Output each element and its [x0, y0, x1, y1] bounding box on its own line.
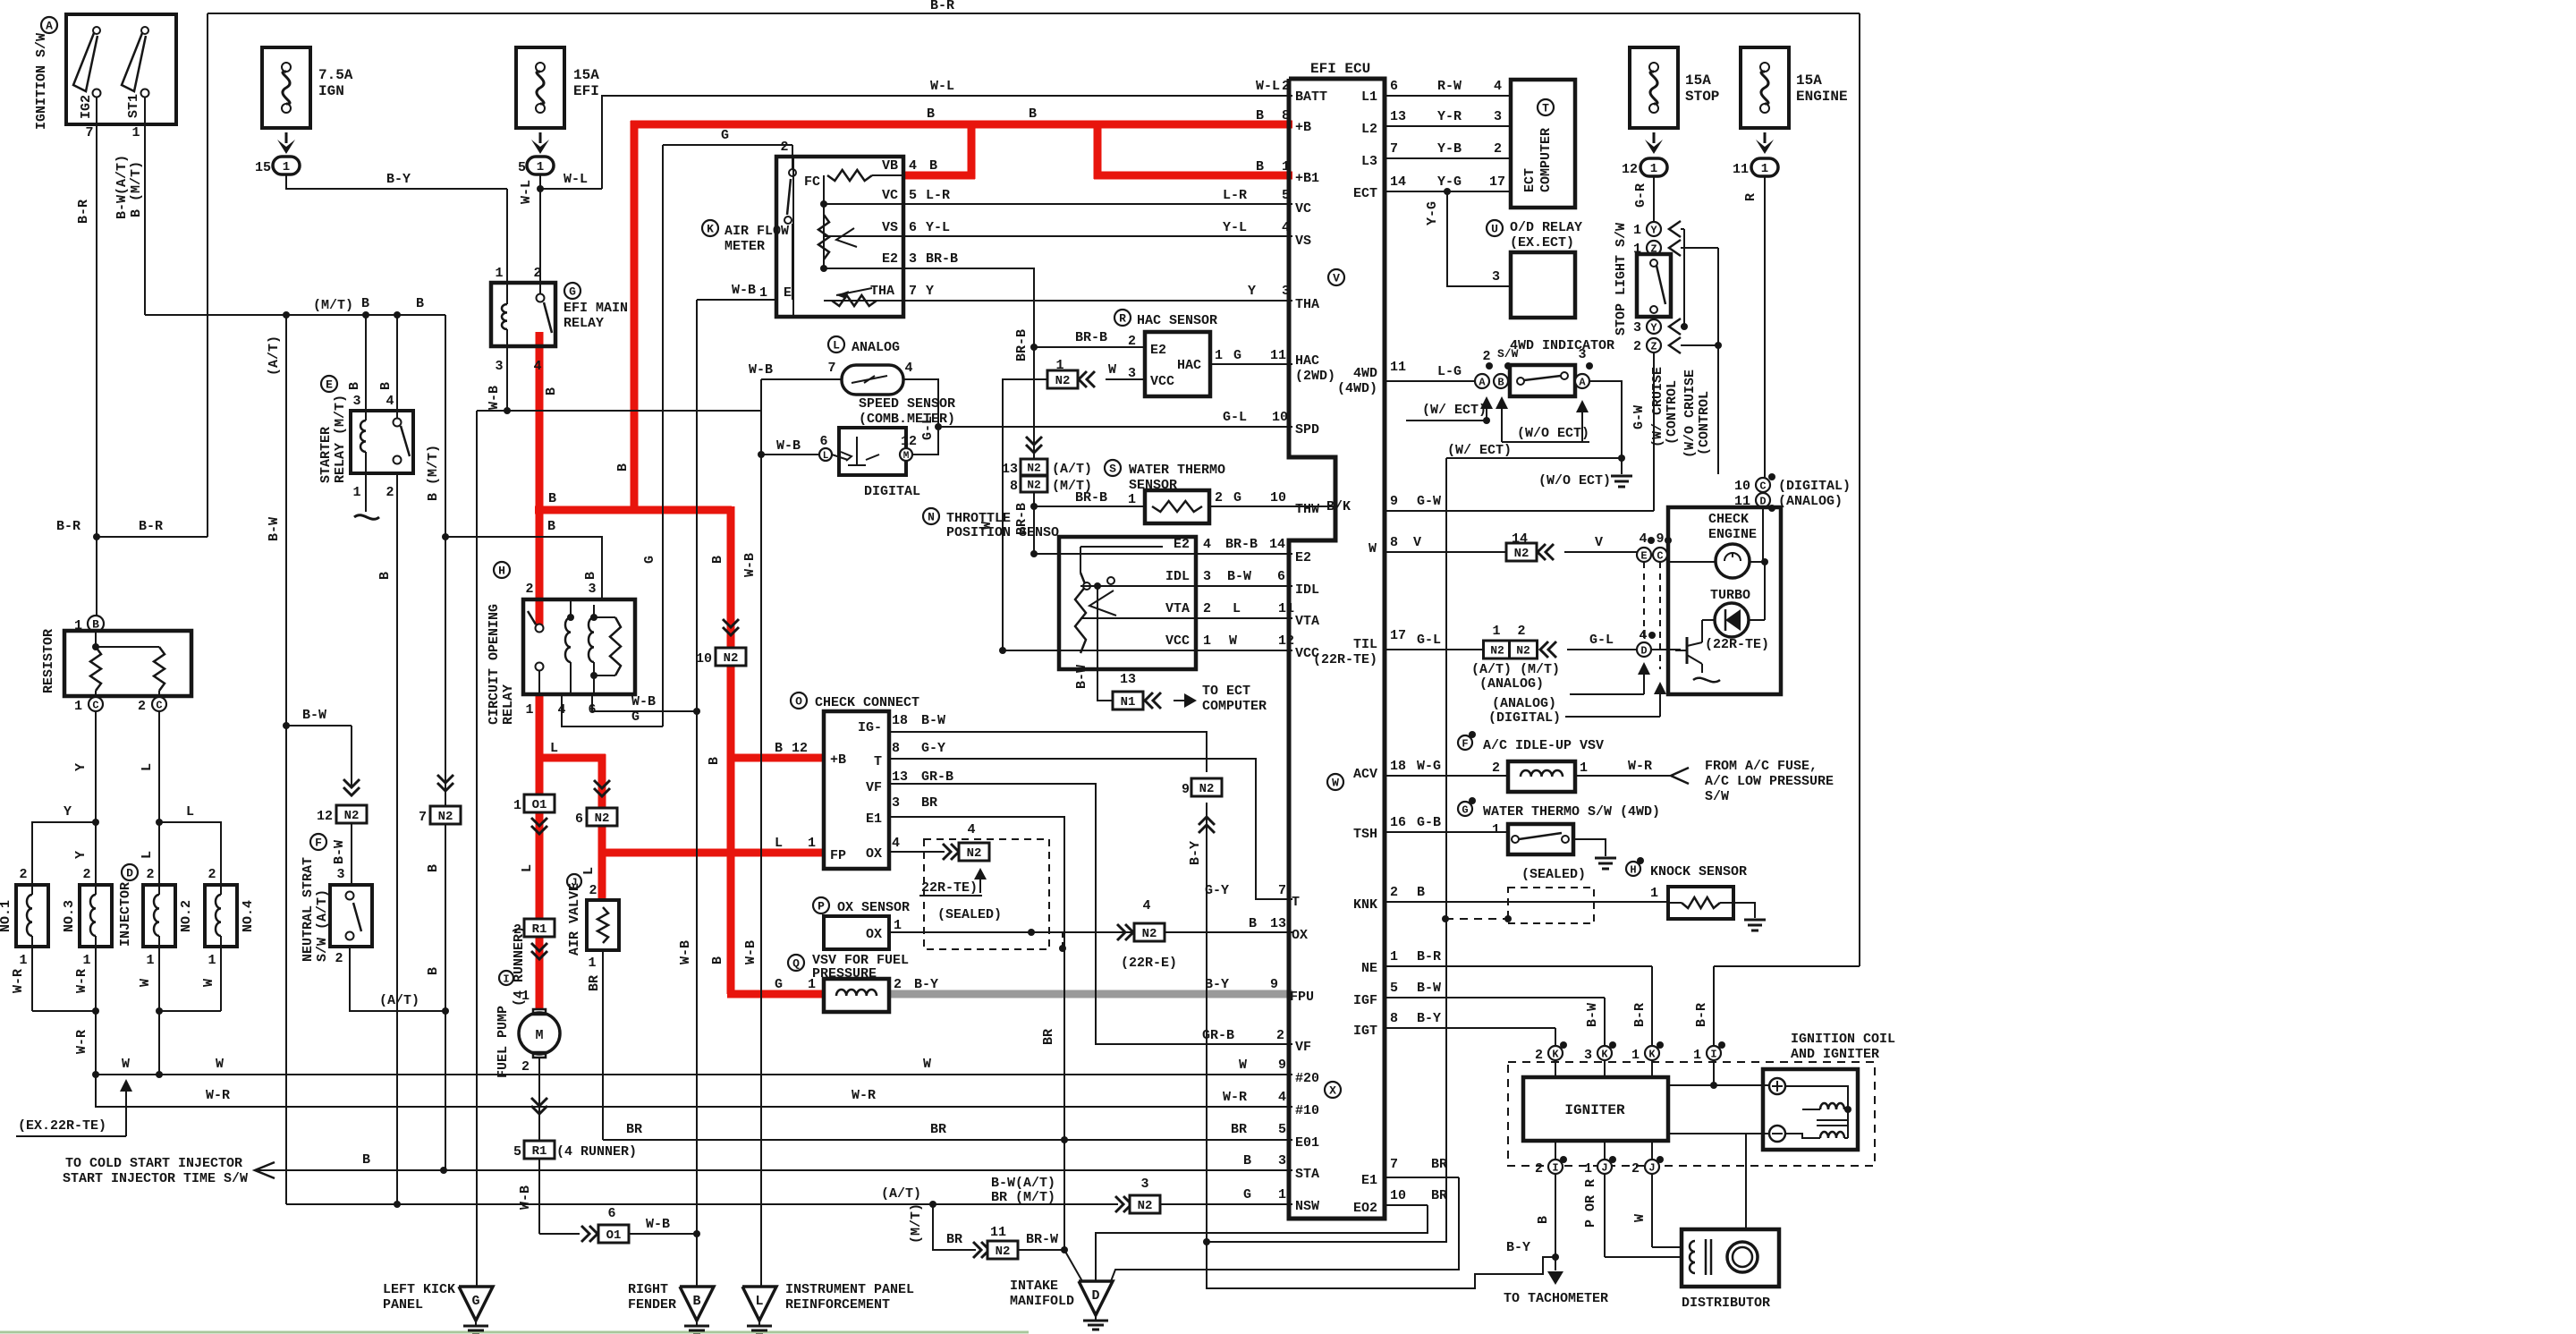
svg-text:9: 9	[1270, 977, 1278, 992]
svg-text:N: N	[928, 511, 935, 524]
svg-text:Y: Y	[73, 763, 89, 771]
svg-text:O: O	[795, 695, 802, 709]
svg-text:D: D	[126, 867, 133, 880]
svg-text:1: 1	[1693, 1048, 1701, 1063]
svg-text:B-W: B-W	[332, 840, 347, 864]
svg-text:9: 9	[1390, 494, 1398, 509]
svg-text:G-Y: G-Y	[921, 741, 945, 756]
svg-text:N2: N2	[1199, 782, 1215, 796]
svg-text:FROM A/C FUSE,: FROM A/C FUSE,	[1705, 759, 1818, 774]
svg-text:12: 12	[317, 809, 333, 824]
svg-text:BR: BR	[1431, 1157, 1447, 1172]
svg-text:RELAY (M/T): RELAY (M/T)	[333, 395, 348, 483]
svg-text:(CONTROL: (CONTROL	[1665, 380, 1680, 445]
svg-text:(2WD): (2WD)	[1295, 369, 1335, 384]
svg-text:BR: BR	[946, 1232, 962, 1247]
svg-text:1: 1	[495, 266, 503, 281]
svg-text:14: 14	[1512, 531, 1528, 547]
svg-text:PANEL: PANEL	[383, 1297, 423, 1313]
svg-text:2: 2	[1535, 1048, 1543, 1063]
svg-text:2: 2	[1492, 760, 1500, 776]
svg-text:K: K	[1648, 1048, 1656, 1060]
svg-text:(A/T): (A/T)	[1052, 462, 1092, 477]
svg-text:3: 3	[909, 251, 917, 267]
svg-text:OX SENSOR: OX SENSOR	[837, 900, 910, 915]
svg-text:6: 6	[909, 220, 917, 235]
svg-text:7: 7	[1390, 1157, 1398, 1172]
svg-text:ANALOG: ANALOG	[852, 340, 900, 355]
svg-text:B: B	[416, 296, 424, 311]
svg-text:+B1: +B1	[1295, 171, 1319, 186]
svg-text:11: 11	[1390, 360, 1406, 375]
svg-text:W: W	[1229, 633, 1237, 649]
svg-text:RELAY: RELAY	[501, 684, 516, 725]
svg-text:1: 1	[208, 953, 216, 968]
svg-text:B-Y: B-Y	[1205, 977, 1229, 992]
svg-text:R: R	[1119, 312, 1126, 326]
svg-text:ENGINE: ENGINE	[1796, 89, 1848, 105]
svg-text:POSITION SENSO: POSITION SENSO	[946, 525, 1059, 540]
svg-text:OX: OX	[866, 846, 882, 862]
svg-text:VTA: VTA	[1295, 614, 1319, 629]
svg-text:A/C LOW PRESSURE: A/C LOW PRESSURE	[1705, 774, 1834, 789]
svg-text:SPEED SENSOR: SPEED SENSOR	[859, 396, 955, 412]
svg-text:B: B	[710, 956, 725, 964]
svg-text:S/W: S/W	[1497, 347, 1519, 361]
svg-text:3: 3	[336, 867, 344, 882]
svg-text:(ANALOG): (ANALOG)	[1492, 696, 1556, 711]
svg-text:BR: BR	[626, 1122, 642, 1137]
svg-text:G-B: G-B	[1417, 815, 1441, 830]
svg-text:B: B	[362, 1152, 370, 1168]
svg-text:+B: +B	[830, 752, 846, 768]
svg-text:2: 2	[521, 1059, 530, 1075]
svg-text:2: 2	[335, 951, 343, 966]
svg-text:BR-B: BR-B	[1225, 537, 1258, 552]
svg-text:F: F	[315, 837, 322, 850]
svg-text:2: 2	[1517, 624, 1525, 639]
svg-text:12: 12	[1622, 162, 1638, 177]
svg-text:3: 3	[1278, 1153, 1286, 1168]
svg-text:HAC: HAC	[1177, 358, 1201, 373]
svg-text:B: B	[710, 556, 725, 564]
svg-text:B: B	[547, 519, 555, 534]
svg-text:10: 10	[1272, 410, 1288, 425]
svg-text:11: 11	[990, 1225, 1006, 1240]
svg-text:N2: N2	[1055, 374, 1071, 388]
svg-text:W-G: W-G	[1417, 759, 1441, 774]
svg-text:BR (M/T): BR (M/T)	[991, 1190, 1055, 1205]
svg-text:B-W: B-W	[1585, 1003, 1600, 1027]
svg-text:1: 1	[808, 836, 816, 851]
svg-text:IDL: IDL	[1165, 569, 1190, 584]
svg-text:NO.2: NO.2	[179, 900, 194, 932]
svg-text:(4 RUNNER): (4 RUNNER)	[556, 1144, 637, 1160]
svg-text:1: 1	[1633, 223, 1641, 238]
svg-text:FP: FP	[830, 848, 846, 863]
svg-text:K: K	[707, 223, 714, 236]
svg-text:12: 12	[792, 741, 808, 756]
svg-text:2: 2	[533, 266, 541, 281]
svg-text:Y: Y	[73, 851, 89, 859]
svg-text:1: 1	[1278, 1187, 1286, 1202]
svg-text:FPU: FPU	[1290, 990, 1314, 1005]
svg-text:B: B	[1417, 885, 1425, 900]
svg-text:(EX.22R-TE): (EX.22R-TE)	[18, 1118, 106, 1134]
svg-text:K: K	[1601, 1048, 1608, 1060]
svg-text:E1: E1	[866, 811, 882, 827]
svg-text:L-G: L-G	[1437, 364, 1462, 379]
svg-text:VF: VF	[866, 780, 882, 795]
svg-text:BR: BR	[1041, 1029, 1056, 1045]
svg-text:N2: N2	[996, 1245, 1011, 1259]
svg-text:E: E	[784, 285, 792, 301]
svg-text:14: 14	[1269, 537, 1285, 552]
svg-text:1: 1	[82, 953, 90, 968]
svg-text:1: 1	[1203, 633, 1211, 649]
svg-text:STOP: STOP	[1685, 89, 1719, 105]
svg-text:N2: N2	[1490, 644, 1504, 658]
svg-text:RELAY: RELAY	[563, 316, 604, 331]
svg-text:3: 3	[1584, 1048, 1592, 1063]
svg-text:X: X	[1329, 1084, 1336, 1098]
svg-text:L: L	[140, 763, 155, 771]
svg-text:3: 3	[892, 795, 900, 811]
svg-text:WATER THERMO: WATER THERMO	[1129, 463, 1225, 478]
svg-text:B-Y: B-Y	[386, 172, 411, 187]
svg-text:N2: N2	[1138, 1199, 1153, 1213]
svg-text:G-L: G-L	[1223, 410, 1247, 425]
svg-text:B: B	[929, 158, 937, 174]
svg-text:W-R: W-R	[1223, 1090, 1247, 1105]
svg-text:TSH: TSH	[1353, 827, 1377, 842]
svg-text:N2: N2	[438, 810, 453, 824]
svg-text:ST1: ST1	[126, 94, 141, 118]
svg-text:(EX.ECT): (EX.ECT)	[1510, 235, 1574, 251]
svg-text:G-L: G-L	[920, 416, 936, 440]
svg-text:TIL: TIL	[1353, 637, 1377, 652]
svg-text:THA: THA	[1295, 297, 1319, 312]
svg-text:Y-L: Y-L	[1223, 220, 1247, 235]
svg-text:FENDER: FENDER	[628, 1297, 676, 1313]
svg-text:8: 8	[1282, 108, 1290, 123]
svg-text:L-R: L-R	[1223, 188, 1247, 203]
svg-text:2: 2	[82, 867, 90, 882]
svg-text:BR: BR	[587, 975, 602, 991]
svg-text:AND IGNITER: AND IGNITER	[1791, 1047, 1879, 1062]
svg-text:BR: BR	[1431, 1188, 1447, 1203]
svg-text:#20: #20	[1295, 1071, 1319, 1086]
svg-text:G: G	[1233, 490, 1241, 506]
svg-text:W: W	[201, 979, 216, 987]
svg-text:DISTRIBUTOR: DISTRIBUTOR	[1682, 1296, 1770, 1311]
svg-text:13: 13	[1002, 462, 1018, 477]
svg-text:L: L	[140, 851, 155, 859]
svg-text:B-Y: B-Y	[914, 977, 938, 992]
svg-text:S/W: S/W	[1705, 789, 1729, 804]
svg-text:(A/T): (A/T)	[881, 1186, 921, 1202]
svg-text:W-L: W-L	[930, 79, 954, 94]
svg-text:NEUTRAL STRAT: NEUTRAL STRAT	[301, 857, 316, 962]
svg-text:2: 2	[1282, 79, 1290, 94]
svg-text:CHECK CONNECT: CHECK CONNECT	[815, 695, 919, 710]
svg-text:(A/T): (A/T)	[267, 336, 282, 376]
svg-text:KNOCK SENSOR: KNOCK SENSOR	[1650, 864, 1747, 879]
svg-text:IGNITION COIL: IGNITION COIL	[1791, 1032, 1895, 1047]
svg-text:N2: N2	[1514, 547, 1529, 561]
svg-text:W-L: W-L	[563, 172, 588, 187]
svg-text:4WD INDICATOR: 4WD INDICATOR	[1510, 338, 1614, 353]
svg-text:B-W(A/T): B-W(A/T)	[114, 155, 130, 219]
svg-text:10: 10	[1390, 1188, 1406, 1203]
svg-text:H: H	[498, 565, 505, 578]
svg-text:(W/O ECT): (W/O ECT)	[1538, 473, 1611, 489]
svg-text:EO2: EO2	[1353, 1201, 1377, 1216]
svg-text:G-W: G-W	[1417, 494, 1441, 509]
svg-text:A: A	[1479, 376, 1486, 388]
svg-text:COMPUTER: COMPUTER	[1202, 699, 1267, 714]
svg-text:V: V	[1413, 535, 1421, 550]
svg-text:N2: N2	[1027, 462, 1041, 475]
svg-text:W-B: W-B	[487, 386, 502, 410]
svg-text:NE: NE	[1361, 961, 1377, 976]
svg-text:B: B	[707, 757, 722, 765]
svg-text:13: 13	[1390, 109, 1406, 124]
svg-text:6: 6	[575, 811, 583, 827]
svg-text:ACV: ACV	[1353, 767, 1377, 782]
svg-text:OX: OX	[1292, 928, 1308, 943]
svg-text:3: 3	[1633, 320, 1641, 336]
svg-text:G: G	[1243, 1187, 1251, 1202]
svg-text:STARTER: STARTER	[318, 427, 334, 483]
svg-text:VC: VC	[1295, 201, 1311, 217]
svg-text:B-W: B-W	[302, 708, 326, 723]
svg-text:O/D RELAY: O/D RELAY	[1510, 220, 1582, 235]
svg-text:G-L: G-L	[1417, 633, 1441, 648]
svg-text:W-B: W-B	[678, 940, 693, 964]
svg-text:FC: FC	[804, 174, 820, 190]
svg-text:R1: R1	[532, 1144, 547, 1159]
svg-text:17: 17	[1489, 174, 1505, 190]
svg-text:L: L	[186, 804, 194, 820]
svg-text:B-W: B-W	[921, 713, 945, 728]
svg-text:SPD: SPD	[1295, 422, 1319, 438]
svg-text:BR-B: BR-B	[1014, 329, 1030, 361]
svg-text:J: J	[1601, 1161, 1607, 1174]
svg-text:4: 4	[1278, 1090, 1286, 1105]
svg-text:1: 1	[1128, 492, 1136, 507]
svg-text:Y: Y	[1248, 284, 1256, 299]
svg-text:1: 1	[525, 702, 533, 718]
svg-text:#10: #10	[1295, 1103, 1319, 1118]
svg-text:R-W: R-W	[1437, 79, 1462, 94]
svg-text:(DIGITAL): (DIGITAL)	[1488, 710, 1561, 726]
svg-text:REINFORCEMENT: REINFORCEMENT	[785, 1297, 890, 1313]
svg-text:16: 16	[1390, 815, 1406, 830]
svg-text:Y-G: Y-G	[1437, 174, 1462, 190]
svg-text:L1: L1	[1361, 89, 1377, 105]
svg-text:5: 5	[1278, 1122, 1286, 1137]
svg-text:L-R: L-R	[926, 188, 950, 203]
svg-text:2: 2	[19, 867, 27, 882]
svg-text:IG2: IG2	[79, 95, 94, 119]
svg-text:(22R-TE): (22R-TE)	[1313, 652, 1377, 667]
svg-text:V: V	[1333, 272, 1340, 285]
svg-text:2: 2	[146, 867, 154, 882]
svg-text:BR-B: BR-B	[1075, 490, 1107, 506]
svg-text:(W/O CRUISE: (W/O CRUISE	[1682, 370, 1698, 458]
svg-text:A: A	[1579, 376, 1586, 388]
svg-text:C: C	[92, 699, 98, 711]
svg-text:Y-L: Y-L	[926, 220, 950, 235]
svg-text:(DIGITAL): (DIGITAL)	[1778, 479, 1851, 494]
svg-text:B: B	[347, 382, 362, 390]
svg-text:4: 4	[1203, 537, 1211, 552]
svg-text:B-R: B-R	[1694, 1003, 1709, 1027]
svg-text:Y: Y	[1650, 321, 1657, 334]
svg-text:2: 2	[1494, 141, 1502, 157]
svg-text:RESISTOR: RESISTOR	[41, 629, 56, 693]
svg-text:6: 6	[1277, 569, 1285, 584]
svg-text:NO.3: NO.3	[62, 900, 77, 932]
svg-text:W-R: W-R	[74, 969, 89, 993]
svg-text:IGNITER: IGNITER	[1564, 1102, 1625, 1118]
svg-text:3: 3	[588, 582, 596, 597]
svg-text:VF: VF	[1295, 1040, 1311, 1055]
svg-text:IGN: IGN	[318, 83, 344, 99]
svg-text:EFI: EFI	[573, 83, 599, 99]
svg-text:(M/T): (M/T)	[909, 1203, 924, 1244]
svg-text:17: 17	[1390, 628, 1406, 643]
svg-text:W: W	[1108, 362, 1116, 378]
svg-text:B: B	[1256, 159, 1264, 174]
svg-text:M: M	[535, 1028, 543, 1043]
svg-text:Z: Z	[1650, 340, 1657, 353]
svg-text:W-B: W-B	[742, 553, 758, 577]
svg-text:9: 9	[1278, 1058, 1286, 1073]
svg-text:INJECTOR: INJECTOR	[118, 882, 133, 947]
svg-text:L: L	[833, 339, 840, 353]
svg-text:L: L	[1233, 601, 1241, 616]
svg-text:L: L	[755, 1294, 763, 1309]
svg-text:G: G	[569, 285, 576, 299]
svg-text:1: 1	[1584, 1161, 1592, 1177]
svg-text:G: G	[1233, 348, 1241, 363]
svg-text:1: 1	[74, 699, 82, 714]
svg-text:I: I	[503, 973, 509, 985]
svg-text:W: W	[923, 1057, 931, 1072]
svg-text:B: B	[615, 463, 631, 472]
svg-text:2: 2	[525, 582, 533, 597]
svg-text:10: 10	[1734, 479, 1750, 494]
svg-text:1: 1	[513, 798, 521, 813]
svg-text:BATT: BATT	[1295, 89, 1327, 105]
svg-text:CIRCUIT OPENING: CIRCUIT OPENING	[487, 604, 502, 725]
svg-text:WATER THERMO S/W (4WD): WATER THERMO S/W (4WD)	[1483, 804, 1660, 820]
svg-text:3: 3	[1128, 366, 1136, 381]
svg-text:4: 4	[904, 361, 912, 376]
svg-text:B-R: B-R	[1632, 1003, 1648, 1027]
svg-text:B (M/T): B (M/T)	[426, 445, 441, 501]
svg-text:7: 7	[85, 125, 93, 140]
svg-text:W: W	[1632, 1214, 1648, 1222]
svg-text:2: 2	[1203, 601, 1211, 616]
svg-text:B-W: B-W	[1227, 569, 1251, 584]
svg-text:10: 10	[696, 651, 712, 667]
svg-text:N2: N2	[724, 651, 739, 666]
svg-text:3: 3	[1203, 569, 1211, 584]
svg-text:2: 2	[1535, 1161, 1543, 1177]
svg-text:G-L: G-L	[1589, 633, 1614, 648]
svg-text:N2: N2	[595, 811, 610, 826]
svg-text:D: D	[1091, 1288, 1099, 1304]
svg-text:2: 2	[1128, 334, 1136, 349]
svg-text:3: 3	[1492, 269, 1500, 285]
svg-text:5: 5	[1390, 981, 1398, 996]
svg-text:W-B: W-B	[732, 283, 756, 298]
svg-text:4: 4	[533, 359, 541, 374]
svg-text:W-R: W-R	[852, 1088, 876, 1103]
svg-text:R1: R1	[532, 922, 547, 937]
svg-text:VB: VB	[882, 158, 898, 174]
svg-text:COMPUTER: COMPUTER	[1538, 128, 1554, 192]
svg-text:N1: N1	[1121, 695, 1136, 709]
svg-text:O1: O1	[606, 1228, 622, 1243]
svg-text:G-W: G-W	[1631, 405, 1647, 429]
svg-text:NO.1: NO.1	[0, 900, 13, 932]
svg-text:FUEL PUMP: FUEL PUMP	[496, 1006, 511, 1078]
svg-text:13: 13	[1270, 916, 1286, 931]
svg-text:INSTRUMENT PANEL: INSTRUMENT PANEL	[785, 1282, 914, 1297]
svg-text:9: 9	[1182, 782, 1190, 797]
svg-text:B: B	[1029, 106, 1037, 122]
svg-text:1: 1	[1055, 358, 1063, 373]
svg-text:1: 1	[1492, 624, 1500, 639]
svg-text:L: L	[550, 741, 558, 756]
svg-text:(COMB.METER): (COMB.METER)	[859, 412, 955, 427]
svg-text:B-W: B-W	[1417, 981, 1441, 996]
svg-text:G: G	[721, 128, 729, 143]
svg-text:C: C	[1657, 549, 1663, 562]
svg-text:VCC: VCC	[1165, 633, 1190, 649]
svg-text:G-R: G-R	[1633, 183, 1648, 208]
svg-text:1: 1	[894, 918, 902, 933]
svg-text:VS: VS	[1295, 234, 1311, 249]
svg-text:W-R: W-R	[1628, 759, 1652, 774]
svg-text:1: 1	[1492, 822, 1500, 837]
svg-text:INTAKE: INTAKE	[1010, 1279, 1058, 1294]
svg-text:Y: Y	[64, 804, 72, 820]
svg-text:1: 1	[1215, 348, 1223, 363]
svg-text:1: 1	[1282, 159, 1290, 174]
svg-text:3: 3	[1140, 1177, 1148, 1192]
svg-text:VS: VS	[882, 220, 898, 235]
svg-text:B-W: B-W	[267, 517, 282, 541]
svg-text:BR: BR	[1231, 1122, 1247, 1137]
svg-text:THW: THW	[1295, 502, 1319, 517]
svg-text:1: 1	[537, 160, 544, 174]
svg-text:EFI ECU: EFI ECU	[1310, 61, 1370, 77]
svg-text:B: B	[544, 387, 559, 395]
svg-text:(A/T) (M/T): (A/T) (M/T)	[1471, 662, 1560, 677]
svg-text:B: B	[426, 967, 441, 975]
svg-text:B-R: B-R	[139, 519, 163, 534]
svg-text:IGNITION S/W: IGNITION S/W	[34, 33, 49, 130]
svg-text:W-B: W-B	[631, 694, 656, 709]
svg-text:4: 4	[909, 158, 917, 174]
svg-text:E2: E2	[1174, 537, 1190, 552]
svg-text:6: 6	[607, 1206, 615, 1221]
